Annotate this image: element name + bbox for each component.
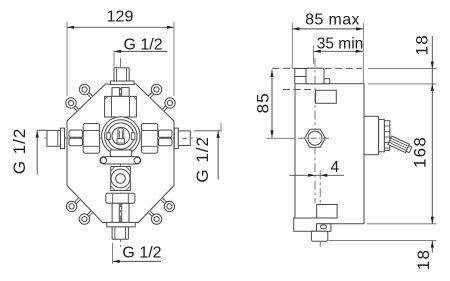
foot top internal line — [294, 217, 337, 219]
mounting hole tab upper-right A — [149, 84, 162, 97]
G1/2 left leader — [36, 130, 38, 174]
svg-text:4: 4 — [330, 159, 339, 176]
bottom threaded stub — [112, 227, 128, 239]
18 bottom dim — [431, 241, 433, 253]
svg-text:G 1/2: G 1/2 — [193, 136, 212, 183]
mounting hole tab upper-left A — [79, 84, 92, 97]
mounting hole tab lower-right A — [162, 199, 175, 212]
35 min — [313, 46, 315, 65]
bottom nut (front) — [112, 203, 129, 222]
top inner block — [316, 90, 337, 103]
G1/2 bottom leader — [113, 260, 162, 262]
dashed wall line min — [283, 89, 316, 91]
svg-text:35 min: 35 min — [317, 35, 364, 52]
G1/2 top leader — [114, 50, 167, 52]
top port threaded stub — [114, 68, 129, 81]
svg-text:85 max: 85 max — [305, 12, 360, 29]
outlet body — [111, 167, 131, 191]
side hex with circle — [305, 129, 326, 147]
body — [294, 84, 364, 232]
svg-text:129: 129 — [107, 9, 134, 26]
85 max — [291, 23, 293, 69]
splined shaft — [388, 136, 413, 154]
horizontal centerline — [44, 137, 200, 139]
svg-text:85: 85 — [253, 92, 272, 113]
splined collar — [384, 121, 389, 151]
cartridge concentric circles — [102, 117, 140, 155]
4 dim — [290, 174, 345, 176]
G1/2 right leader — [217, 131, 219, 180]
octagon mounting plate — [67, 84, 174, 223]
outlet circle — [111, 169, 130, 188]
dim 129 line — [67, 26, 174, 28]
right column ext lines — [368, 68, 437, 70]
dim 129 extension lines — [66, 22, 68, 97]
left port stub — [47, 130, 61, 146]
85 vertical — [267, 137, 295, 139]
svg-text:168: 168 — [411, 136, 430, 168]
right port stub — [178, 131, 190, 146]
cartridge stem detail — [117, 128, 125, 143]
cartridge disc 2 — [379, 119, 385, 151]
centerline vertical bottom port — [319, 171, 321, 204]
mounting hole tab lower-right B — [149, 212, 162, 225]
bottom flange — [107, 222, 135, 227]
svg-text:G 1/2: G 1/2 — [122, 245, 161, 262]
18 top dim — [431, 36, 433, 69]
bracket bar with screws — [100, 157, 141, 164]
top big hex nut — [105, 96, 137, 117]
left port flange — [61, 128, 65, 149]
dashed wall line max — [272, 67, 362, 69]
svg-text:18: 18 — [412, 34, 431, 55]
bottom flange side — [311, 224, 331, 242]
svg-text:G 1/2: G 1/2 — [124, 37, 163, 54]
svg-text:G 1/2: G 1/2 — [10, 128, 29, 175]
right port flange — [174, 128, 178, 149]
body upper-left boss — [294, 69, 296, 84]
right hex nut — [141, 124, 157, 154]
left coupling — [69, 130, 83, 146]
mounting hole tab lower-left B — [79, 212, 92, 225]
cartridge disc 1 — [364, 116, 379, 155]
centerline vertical top port — [314, 58, 316, 203]
top port flange — [110, 81, 134, 85]
vertical centerline — [120, 58, 122, 247]
cartridge side tabs — [107, 133, 111, 140]
bottom inner block — [317, 205, 337, 219]
svg-text:18: 18 — [414, 249, 433, 270]
neck below cartridge — [110, 150, 131, 157]
mounting hole tab upper-left B — [66, 98, 78, 111]
top stub side — [306, 68, 330, 83]
left hex nut — [83, 124, 99, 154]
mounting hole tab upper-right B — [163, 98, 175, 111]
168 dim — [431, 69, 433, 224]
mounting hole tab lower-left A — [66, 199, 79, 212]
right coupling — [159, 130, 173, 146]
bottom hex nut — [106, 193, 135, 203]
top port nut (front) — [112, 88, 129, 97]
